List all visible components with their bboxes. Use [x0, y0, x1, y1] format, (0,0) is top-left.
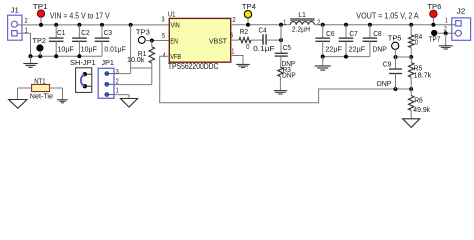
- svg-text:Net-Tie: Net-Tie: [30, 91, 53, 100]
- svg-text:TP6: TP6: [427, 2, 441, 11]
- svg-text:DNP: DNP: [377, 79, 391, 88]
- svg-text:C6: C6: [326, 29, 334, 38]
- svg-text:J1: J1: [11, 6, 19, 15]
- svg-text:VBST: VBST: [209, 37, 228, 46]
- svg-text:U1: U1: [168, 9, 176, 18]
- svg-text:TP7: TP7: [429, 34, 441, 43]
- svg-text:TP1: TP1: [33, 2, 48, 11]
- svg-text:2.2µH: 2.2µH: [292, 24, 310, 33]
- svg-text:DNP: DNP: [282, 71, 296, 80]
- svg-text:TP3: TP3: [136, 28, 150, 37]
- svg-text:C5: C5: [283, 43, 291, 52]
- svg-text:R2: R2: [240, 27, 248, 36]
- svg-text:L1: L1: [298, 10, 305, 19]
- svg-text:DNP: DNP: [373, 44, 387, 53]
- svg-text:10µF: 10µF: [57, 45, 74, 54]
- svg-text:TP5: TP5: [388, 33, 402, 42]
- svg-text:EN: EN: [170, 36, 177, 45]
- svg-text:R6: R6: [414, 96, 423, 105]
- svg-text:SH-JP1: SH-JP1: [70, 58, 96, 67]
- svg-text:10.0k: 10.0k: [127, 55, 145, 64]
- svg-text:4: 4: [163, 50, 166, 59]
- svg-text:C3: C3: [104, 28, 112, 37]
- svg-text:JP1: JP1: [101, 58, 114, 67]
- svg-text:VIN: VIN: [171, 20, 180, 29]
- svg-text:22µF: 22µF: [349, 44, 366, 53]
- svg-text:2: 2: [233, 15, 236, 24]
- svg-text:2: 2: [25, 16, 28, 25]
- svg-text:C9: C9: [383, 59, 392, 68]
- svg-text:22µF: 22µF: [325, 44, 342, 53]
- svg-text:3: 3: [162, 14, 165, 23]
- svg-text:VFB: VFB: [170, 52, 181, 61]
- svg-text:3: 3: [116, 67, 119, 76]
- svg-text:49.9k: 49.9k: [413, 105, 430, 114]
- svg-text:6: 6: [230, 31, 233, 40]
- svg-text:C8: C8: [373, 29, 381, 38]
- svg-text:VIN = 4.5 V to 17 V: VIN = 4.5 V to 17 V: [50, 11, 110, 21]
- svg-text:1: 1: [283, 17, 286, 26]
- svg-text:NT1: NT1: [34, 76, 45, 85]
- svg-text:VOUT = 1.05 V, 2 A: VOUT = 1.05 V, 2 A: [356, 11, 419, 21]
- svg-text:C7: C7: [349, 29, 357, 38]
- svg-text:5: 5: [162, 31, 165, 40]
- svg-text:18.7k: 18.7k: [414, 71, 432, 80]
- svg-text:2: 2: [116, 77, 119, 86]
- svg-text:0.01µF: 0.01µF: [104, 45, 126, 54]
- svg-text:0: 0: [415, 37, 418, 46]
- svg-text:1: 1: [116, 86, 119, 95]
- svg-text:C1: C1: [57, 28, 65, 37]
- svg-text:0.1µF: 0.1µF: [253, 44, 275, 53]
- svg-text:J2: J2: [457, 6, 466, 15]
- svg-text:10µF: 10µF: [81, 45, 98, 54]
- svg-text:TP4: TP4: [242, 2, 256, 11]
- svg-text:TPS562200DDC: TPS562200DDC: [168, 62, 219, 71]
- svg-text:C2: C2: [81, 28, 89, 37]
- svg-text:C4: C4: [259, 26, 267, 35]
- svg-text:0: 0: [246, 42, 249, 51]
- svg-text:1: 1: [231, 47, 234, 56]
- svg-text:TP2: TP2: [33, 36, 46, 45]
